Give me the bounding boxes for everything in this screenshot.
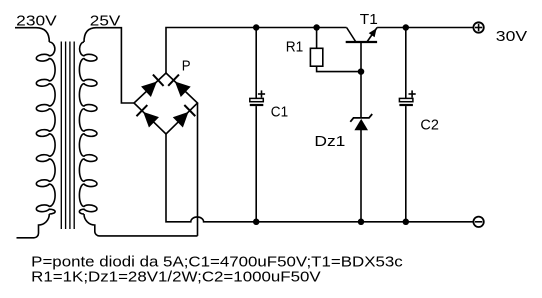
svg-text:R1=1K;Dz1=28V1/2W;C2=1000uF50V: R1=1K;Dz1=28V1/2W;C2=1000uF50V bbox=[31, 268, 321, 285]
output terminal + bbox=[473, 22, 483, 32]
wire: bridge right corner down to 25V bottom lead bbox=[197, 103, 199, 236]
capacitor C2 bbox=[399, 28, 415, 222]
svg-text:P: P bbox=[182, 58, 191, 75]
wire: 25V top lead to bridge left corner bbox=[84, 28, 134, 103]
svg-text:230V: 230V bbox=[16, 12, 57, 29]
diode D3 (bottom->left) bbox=[136, 105, 159, 127]
resistor R1 bbox=[310, 28, 361, 72]
wire: 230V bottom lead bbox=[17, 214, 50, 238]
node C2/bottom rail bbox=[403, 219, 410, 226]
capacitor C1 bbox=[250, 28, 265, 222]
wire: bridge - output to bottom rail with hop bbox=[166, 134, 474, 222]
node base/R1/Dz1 bbox=[358, 68, 365, 75]
svg-text:T1: T1 bbox=[360, 11, 378, 28]
svg-text:R1: R1 bbox=[286, 39, 304, 56]
node C2/output rail bbox=[403, 24, 410, 31]
transformer core bbox=[61, 42, 74, 230]
wire: top rail right segment (emitter to + terminal) bbox=[377, 27, 474, 29]
node R1/top rail bbox=[313, 24, 320, 31]
wire: 230V top lead bbox=[15, 28, 49, 42]
svg-text:Dz1: Dz1 bbox=[314, 133, 345, 150]
node C1/bottom rail bbox=[253, 219, 260, 226]
diode D4 (bottom->right) bbox=[173, 105, 196, 127]
svg-text:C2: C2 bbox=[420, 117, 439, 134]
transistor T1 (NPN pass transistor) bbox=[346, 28, 377, 72]
diode D1 (left->top) bbox=[141, 75, 164, 97]
svg-text:30V: 30V bbox=[496, 28, 527, 45]
transformer secondary winding (25V side) bbox=[79, 42, 97, 214]
node Dz1/bottom rail bbox=[358, 219, 365, 226]
bridge rectifier P : diamond outline bbox=[134, 73, 198, 134]
node C1/top rail bbox=[253, 24, 260, 31]
transformer primary winding (230V side) bbox=[36, 42, 55, 214]
wire: bridge + output to top rail bbox=[166, 28, 347, 74]
diode D2 (right->top) bbox=[168, 75, 191, 97]
svg-text:25V: 25V bbox=[90, 12, 121, 29]
zener diode Dz1 bbox=[350, 72, 372, 222]
output terminal - bbox=[473, 217, 483, 227]
wire: 25V bottom lead bbox=[84, 214, 198, 236]
svg-text:C1: C1 bbox=[271, 104, 288, 121]
